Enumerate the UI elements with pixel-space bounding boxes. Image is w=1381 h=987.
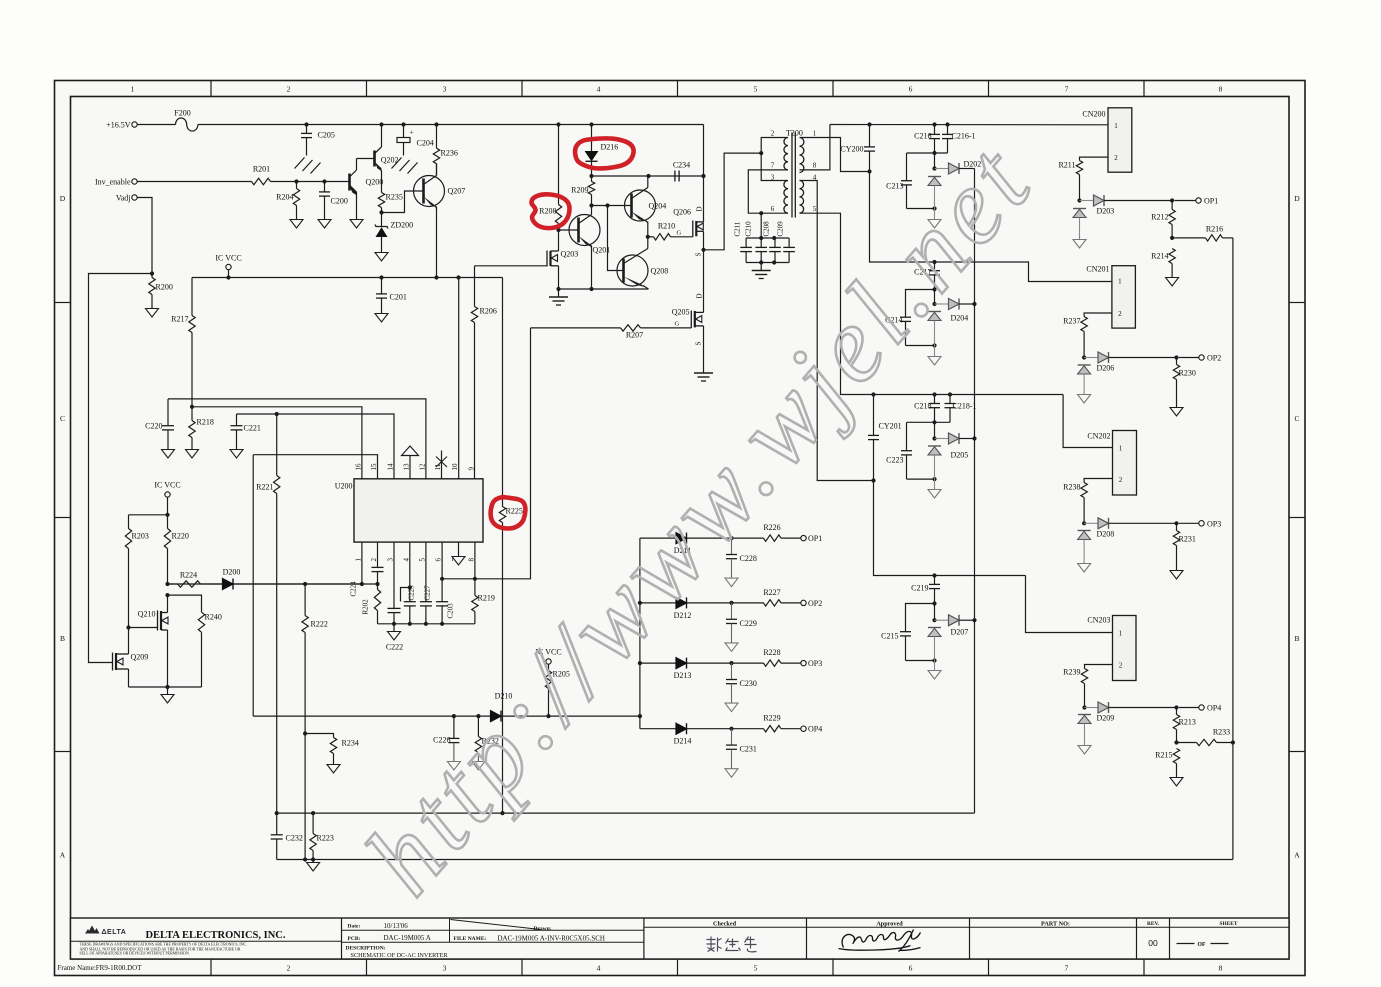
node R233 junction: [1174, 740, 1178, 744]
svg-text:OP3: OP3: [808, 659, 822, 668]
diode D211: [640, 537, 676, 539]
svg-text:Drawn:: Drawn:: [534, 926, 552, 932]
svg-text:OP1: OP1: [1204, 197, 1218, 206]
svg-text:IC VCC: IC VCC: [215, 254, 241, 263]
svg-text:7: 7: [771, 162, 775, 170]
ground R218: [186, 450, 199, 459]
wire pin7 ground: [458, 542, 460, 556]
svg-text:R210: R210: [658, 222, 675, 231]
wire pin13 up arrow: [409, 456, 411, 479]
ground C205 slash: [295, 158, 305, 169]
svg-text:13: 13: [403, 463, 411, 471]
svg-text:6: 6: [771, 205, 775, 213]
svg-text:CN201: CN201: [1086, 265, 1109, 274]
diode D202b up: [928, 176, 941, 178]
wire Inv_enable to R201: [137, 181, 251, 183]
svg-text:R237: R237: [1063, 317, 1080, 326]
svg-text:R220: R220: [172, 532, 189, 541]
ground Q205 IEC: [694, 372, 713, 374]
node D203 junction: [1077, 198, 1081, 202]
wire pin11 no-connect: [441, 451, 443, 479]
wire D200 node horizontal: [168, 583, 378, 585]
svg-text:2: 2: [1118, 310, 1122, 318]
svg-text:Q203: Q203: [561, 250, 579, 259]
ic U200 box: [354, 479, 483, 542]
svg-text:SELL OF APPARATUSES OR DEVICES: SELL OF APPARATUSES OR DEVICES WITHOUT P…: [80, 952, 190, 956]
wire line A C220 to pin12: [168, 399, 426, 479]
ground C228: [725, 578, 738, 587]
svg-text:G: G: [677, 230, 682, 237]
svg-text:14: 14: [387, 463, 395, 471]
svg-text:00: 00: [1148, 938, 1158, 948]
svg-text:OP3: OP3: [1207, 520, 1221, 529]
wire CN203 pin1 feed: [1026, 576, 1113, 633]
svg-text:1: 1: [1118, 278, 1122, 286]
wire pin8: [474, 542, 476, 579]
svg-text:R207: R207: [626, 331, 643, 340]
node OP2 terminal left: [801, 600, 806, 605]
svg-text:4: 4: [402, 558, 410, 562]
wire C214 branch: [932, 287, 936, 291]
svg-text:DELTA ELECTRONICS, INC.: DELTA ELECTRONICS, INC.: [145, 930, 285, 941]
wire T200 pin1 to CY200 bottom: [800, 138, 870, 172]
svg-text:G: G: [675, 321, 680, 328]
svg-text:R221: R221: [256, 483, 273, 492]
logo delta: [85, 926, 100, 934]
wire +16.5V to fuse: [137, 124, 175, 126]
svg-text:Q200: Q200: [366, 178, 384, 187]
svg-text:OF: OF: [1197, 942, 1206, 948]
svg-text:Q208: Q208: [651, 267, 669, 276]
wire Q206 source to T200 pins 2-3: [704, 153, 762, 250]
node OP3 terminal left: [801, 660, 806, 665]
svg-text:1: 1: [1119, 445, 1123, 453]
svg-text:D207: D207: [951, 628, 969, 637]
svg-text:R216: R216: [1206, 225, 1223, 234]
svg-text:R206: R206: [480, 307, 497, 316]
wire line B R217 to pin16: [192, 407, 362, 479]
svg-text:D: D: [60, 194, 66, 203]
svg-text:C200: C200: [331, 197, 348, 206]
svg-text:REV.: REV.: [1147, 921, 1160, 927]
wire pin1 to D200 node: [361, 542, 363, 584]
svg-text:C204: C204: [417, 139, 434, 148]
svg-text:A: A: [1294, 851, 1300, 860]
ground R230: [1170, 408, 1183, 417]
svg-text:Approved: Approved: [876, 920, 903, 927]
wire Q206 source node: [703, 231, 705, 250]
ground ZD200: [375, 253, 388, 262]
wire Vadj branch to Q209 gate: [89, 274, 153, 663]
svg-text:1: 1: [1119, 630, 1123, 638]
ground R234: [327, 765, 340, 774]
svg-text:S: S: [695, 342, 703, 346]
svg-text:T200: T200: [786, 129, 803, 138]
red annotation circle D216: [575, 138, 634, 168]
svg-text:2: 2: [287, 964, 291, 973]
ground R214: [1166, 278, 1179, 287]
diode D206b up: [1078, 364, 1091, 366]
ground D203: [1073, 240, 1086, 249]
svg-text:C230: C230: [740, 679, 757, 688]
svg-text:R217: R217: [171, 315, 188, 324]
ground C201: [375, 314, 388, 323]
svg-text:2: 2: [1114, 154, 1118, 162]
border inner frame: [71, 97, 1290, 960]
ground pin7: [452, 557, 465, 566]
svg-text:4: 4: [597, 85, 601, 94]
svg-text:DESCRIPTION:: DESCRIPTION:: [346, 945, 386, 951]
svg-text:R219: R219: [478, 594, 495, 603]
wire T200 pin2-pin3 tie: [761, 138, 788, 181]
svg-text:R208: R208: [539, 207, 556, 216]
svg-text:1: 1: [813, 130, 817, 138]
svg-text:1: 1: [131, 85, 135, 94]
wire feedback net y812: [277, 812, 975, 814]
svg-text:+16.5V: +16.5V: [106, 121, 131, 130]
wire R226 row: [732, 537, 764, 539]
connector CN203: [1113, 616, 1137, 681]
wire Q206 drain from rail: [703, 125, 705, 222]
svg-text:CN203: CN203: [1087, 616, 1110, 625]
wire T200 pin6 to cap bank: [760, 213, 762, 238]
svg-text:OP4: OP4: [808, 725, 822, 734]
svg-text:4: 4: [597, 964, 601, 973]
svg-text:C215: C215: [881, 632, 898, 641]
wire +16.5V rail: [198, 124, 704, 126]
svg-text:R227: R227: [763, 588, 780, 597]
node OP3 junction: [1174, 521, 1178, 525]
svg-text:8: 8: [1219, 964, 1223, 973]
svg-text:D216: D216: [601, 143, 619, 152]
svg-text:R234: R234: [342, 739, 359, 748]
node OP4 terminal: [1199, 705, 1204, 710]
svg-text:3: 3: [443, 964, 447, 973]
svg-text:R218: R218: [197, 418, 214, 427]
svg-text:R228: R228: [763, 648, 780, 657]
svg-text:R213: R213: [1179, 718, 1196, 727]
svg-text:C231: C231: [740, 745, 757, 754]
node OP2 junction: [1174, 355, 1178, 359]
diode D214: [640, 728, 676, 730]
title block: [71, 918, 1290, 959]
wire Q210 gate: [129, 627, 158, 629]
wire Q203 gate line: [475, 265, 548, 267]
svg-text:Q204: Q204: [649, 202, 667, 211]
svg-text:CN202: CN202: [1087, 432, 1110, 441]
svg-text:R239: R239: [1063, 668, 1080, 677]
svg-text:R215: R215: [1155, 751, 1172, 760]
svg-text:C232: C232: [286, 834, 303, 843]
svg-text:D208: D208: [1097, 530, 1115, 539]
node OP1 terminal: [1196, 198, 1201, 203]
svg-text:R209: R209: [571, 186, 588, 195]
svg-text:ZD200: ZD200: [391, 221, 414, 230]
svg-text:D213: D213: [674, 671, 692, 680]
svg-text:2: 2: [370, 558, 378, 562]
svg-text:9: 9: [468, 467, 476, 471]
svg-text:A: A: [60, 851, 66, 860]
ground block1: [934, 209, 936, 220]
svg-text:2: 2: [1119, 476, 1123, 484]
svg-text:Vadj: Vadj: [116, 194, 131, 203]
ground D209: [1078, 746, 1091, 755]
svg-text:R231: R231: [1179, 535, 1196, 544]
svg-text:Q206: Q206: [673, 208, 691, 217]
svg-text:C229: C229: [740, 619, 757, 628]
ground block3: [934, 479, 936, 489]
svg-text:15: 15: [370, 463, 378, 471]
svg-text:OP2: OP2: [808, 599, 822, 608]
svg-text:C205: C205: [318, 131, 335, 140]
svg-text:Checked: Checked: [713, 920, 737, 927]
svg-text:Inv_enable: Inv_enable: [95, 178, 131, 187]
svg-text:10/13'06: 10/13'06: [384, 922, 409, 930]
wire CN202 pin1 feed: [1063, 395, 1112, 448]
red annotation circle R225: [491, 497, 526, 528]
ground D208: [1078, 564, 1091, 573]
svg-text:C213: C213: [886, 182, 903, 191]
ground C229: [725, 643, 738, 652]
ground C230: [725, 703, 738, 712]
approved signature: [839, 930, 921, 952]
wire R240 branch: [165, 593, 169, 597]
wire Q206 source down to Q205 drain: [703, 250, 705, 313]
svg-text:SCHEMATIC OF DC-AC INVERTER: SCHEMATIC OF DC-AC INVERTER: [351, 952, 449, 959]
svg-text:5: 5: [754, 85, 758, 94]
wire Q203 source to bottom rail: [558, 266, 560, 289]
svg-text:+: +: [409, 128, 413, 137]
wire Q208 base drop: [608, 206, 624, 271]
svg-text:2: 2: [771, 130, 775, 138]
wire pin10 to IC VCC rail: [458, 278, 460, 479]
svg-text:D200: D200: [223, 568, 241, 577]
svg-text:AND SHALL NOT BE REPRODUCED OR: AND SHALL NOT BE REPRODUCED OR USED AS T…: [80, 947, 241, 951]
wire T200 pin5 down to C218 rail: [800, 213, 1064, 394]
svg-text:R229: R229: [763, 714, 780, 723]
svg-text:PART NO:: PART NO:: [1041, 920, 1070, 927]
svg-text:FILE NAME:: FILE NAME:: [454, 936, 487, 942]
svg-text:1: 1: [1114, 122, 1118, 130]
svg-text:C210: C210: [745, 221, 753, 237]
ground R232: [472, 762, 485, 771]
svg-text:C234: C234: [673, 161, 690, 170]
wire R227 row: [732, 602, 764, 604]
svg-text:1: 1: [354, 558, 362, 562]
diode D208b up: [1078, 530, 1091, 532]
svg-text:R235: R235: [386, 193, 403, 202]
wire CN203 pin2 to R239: [1085, 665, 1113, 669]
wire secondary rail to CN200: [830, 124, 1108, 126]
svg-text:SHEET: SHEET: [1220, 921, 1238, 927]
svg-text:C203: C203: [447, 603, 455, 619]
svg-text:5: 5: [813, 205, 817, 213]
ground R200: [146, 309, 159, 318]
wire lower ground bar: [129, 686, 202, 688]
svg-text:C209: C209: [777, 221, 785, 237]
svg-text:8: 8: [1219, 85, 1223, 94]
svg-text:S: S: [695, 253, 703, 257]
svg-text:C224: C224: [350, 581, 358, 597]
svg-text:R202: R202: [362, 599, 370, 615]
svg-text:R201: R201: [253, 165, 270, 174]
svg-text:Q207: Q207: [448, 187, 466, 196]
wire line C C221 to pin14: [237, 414, 395, 479]
wire pin1 net down to C217 block: [870, 172, 935, 263]
wire R229 row: [732, 728, 764, 730]
svg-text:2: 2: [1119, 662, 1123, 670]
svg-text:6: 6: [909, 85, 913, 94]
svg-text:DAC-19M005 A-INV-R0C5X05.SCH: DAC-19M005 A-INV-R0C5X05.SCH: [498, 934, 605, 942]
wire pin15 drop to D210 line: [252, 455, 254, 716]
wire C217 to CN201 pin1: [935, 262, 1112, 282]
connector CN200: [1108, 108, 1132, 172]
wire D-block anode bus: [639, 538, 641, 729]
svg-text:C211: C211: [734, 221, 742, 236]
svg-text:5: 5: [754, 964, 758, 973]
wire to Q207 base: [382, 191, 424, 213]
node R235-ZD200 junction: [379, 210, 383, 214]
diode D212: [640, 602, 676, 604]
node Q201 collector junction: [589, 203, 593, 207]
diode D209b up: [1078, 714, 1091, 716]
svg-text:C222: C222: [386, 643, 403, 652]
svg-text:DAC-19M005 A: DAC-19M005 A: [384, 934, 431, 942]
wire C213 bottom: [907, 208, 935, 210]
wire U200 decoupling bus: [378, 623, 475, 625]
svg-text:7: 7: [1065, 964, 1069, 973]
svg-text:3: 3: [387, 558, 395, 562]
ground bottom rail IEC: [558, 289, 560, 297]
connector CN201: [1112, 266, 1136, 328]
svg-text:D: D: [696, 293, 704, 298]
svg-text:CY200: CY200: [840, 145, 863, 154]
wire R203 R220 top bar: [129, 514, 168, 516]
svg-text:C223: C223: [886, 456, 903, 465]
svg-text:R238: R238: [1063, 483, 1080, 492]
ground C220: [162, 450, 175, 459]
svg-text:3: 3: [443, 85, 447, 94]
node OP4 terminal left: [801, 726, 806, 731]
wire block1 node: [907, 152, 948, 154]
red annotation circle R208: [532, 194, 570, 228]
svg-text:Q210: Q210: [138, 610, 156, 619]
ground R223: [312, 860, 314, 863]
wire CN200 pin2 to R211: [1080, 157, 1109, 160]
svg-text:C218-1: C218-1: [953, 402, 977, 411]
node D209 junction: [1082, 705, 1086, 709]
svg-text:F200: F200: [174, 109, 190, 118]
ground C200: [318, 220, 331, 229]
wire ground bus y859: [277, 859, 1233, 861]
svg-text:Frame Name:FR9-1R00.DOT: Frame Name:FR9-1R00.DOT: [58, 964, 143, 972]
ground R231: [1170, 571, 1183, 580]
svg-text:8: 8: [813, 162, 817, 170]
svg-text:R230: R230: [1179, 369, 1196, 378]
wire block3 node: [907, 421, 951, 423]
svg-text:C201: C201: [390, 293, 407, 302]
ground R204: [290, 220, 303, 229]
svg-text:6: 6: [435, 558, 443, 562]
wire R216 to bottom bus: [1232, 238, 1234, 860]
svg-text:OP2: OP2: [1207, 354, 1221, 363]
svg-text:C227: C227: [424, 585, 432, 601]
wire pin6-pin8 tie to R207: [442, 328, 530, 579]
svg-text:R223: R223: [317, 834, 334, 843]
svg-text:Q209: Q209: [131, 653, 149, 662]
svg-text:C220: C220: [145, 422, 162, 431]
wire C215 branch: [906, 604, 935, 632]
node R210 junction: [646, 235, 650, 239]
ground block2: [934, 346, 936, 357]
svg-text:ΔELTA: ΔELTA: [102, 929, 127, 936]
svg-text:D: D: [1294, 194, 1300, 203]
wire Vadj down to R200: [137, 198, 152, 274]
ground D206: [1078, 395, 1091, 404]
svg-text:R233: R233: [1213, 728, 1230, 737]
wire D202 cathode bus down: [974, 169, 976, 814]
svg-text:PCB:: PCB:: [348, 936, 361, 942]
wire R201 to Q200 base: [271, 181, 350, 183]
wire CN202 pin2 to R238: [1084, 479, 1112, 483]
svg-text:D209: D209: [1097, 714, 1115, 723]
svg-text:U200: U200: [335, 482, 353, 491]
svg-text:R204: R204: [276, 193, 293, 202]
node D208 junction: [1082, 521, 1086, 525]
svg-text:10: 10: [451, 463, 459, 471]
svg-text:8: 8: [467, 558, 475, 562]
ground C221: [230, 450, 243, 459]
wire R228 row: [732, 662, 764, 664]
wire Q201 collector node line to C234: [592, 175, 704, 177]
ground C204 slash: [392, 158, 402, 169]
svg-text:D: D: [696, 206, 704, 211]
node D206 junction: [1082, 355, 1086, 359]
ground cap bank IEC: [760, 263, 762, 271]
svg-text:R224: R224: [180, 571, 197, 580]
svg-text:C219: C219: [911, 584, 928, 593]
wire bottom rail ground: [559, 288, 649, 290]
node OP2 terminal: [1199, 355, 1204, 360]
svg-text:D205: D205: [951, 451, 969, 460]
svg-text:Q205: Q205: [672, 308, 690, 317]
svg-text:Date:: Date:: [348, 924, 361, 930]
node OP3 terminal: [1199, 521, 1204, 526]
svg-text:C221: C221: [244, 424, 261, 433]
ground C231: [725, 769, 738, 778]
drawn field: [451, 920, 541, 930]
wire T200 pin4 down: [800, 181, 874, 481]
svg-text:C: C: [1294, 414, 1299, 423]
node OP1 terminal left: [801, 535, 806, 540]
diode D207b up: [928, 627, 941, 629]
ground R215: [1170, 778, 1183, 787]
svg-text:C208: C208: [763, 221, 771, 237]
diode D213: [640, 662, 676, 664]
svg-text:R240: R240: [205, 613, 222, 622]
wire T200 pin7-pin6 tie: [748, 170, 788, 213]
grid band dividers: [210, 81, 212, 97]
svg-text:C: C: [60, 414, 65, 423]
svg-text:OP1: OP1: [808, 534, 822, 543]
svg-text:R203: R203: [132, 532, 149, 541]
diode D205b up: [928, 445, 941, 447]
wire line D to pin15: [253, 455, 377, 479]
wire pin4 jog: [401, 588, 410, 602]
wire pin15 feed line y716: [253, 715, 490, 717]
svg-text:R222: R222: [311, 620, 328, 629]
svg-text:R225: R225: [506, 507, 523, 516]
